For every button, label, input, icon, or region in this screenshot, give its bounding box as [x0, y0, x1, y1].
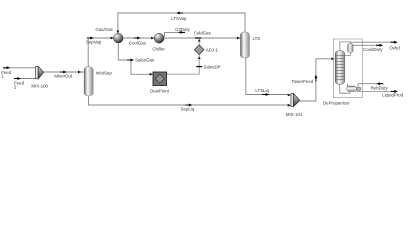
arrow on stream Feed 1 — [3, 66, 10, 69]
svg-text:LTSVap: LTSVap — [171, 16, 187, 21]
arrow on energy stream RebDuty (pointing left) — [376, 82, 383, 85]
wire ADJ-1 target connector to SalesDP — [167, 55, 200, 75]
svg-text:Chiller: Chiller — [152, 46, 165, 51]
wire column bottoms line — [340, 84, 350, 93]
nozzle arrowhead into DePropanizer — [331, 57, 334, 60]
wire stream LTSVap (top line) — [118, 13, 245, 34]
sub-flowsheet boundary DePropanizer — [334, 39, 363, 98]
wire energy stream RebDuty — [358, 84, 383, 87]
nozzle arrowhead into DewPoint — [150, 73, 153, 76]
nozzle arrowhead into Gas/Gas — [111, 37, 114, 40]
adjust operation ADJ-1 — [194, 45, 204, 55]
separator vessel InletSep — [84, 67, 93, 96]
wire reboiler vapour return — [347, 84, 349, 86]
arrow on stream TowerFeed (pointing up) — [314, 75, 317, 82]
svg-text:CoolGas: CoolGas — [129, 40, 147, 45]
svg-text:ADJ-1: ADJ-1 — [206, 47, 219, 52]
arrow on stream LTSLiq — [262, 93, 269, 96]
ADJ-1 connector arrow up to ColdGas — [198, 39, 201, 42]
wire stream CoolGas — [123, 37, 154, 39]
svg-text:MixerOut: MixerOut — [54, 73, 73, 78]
svg-text:DewPoint: DewPoint — [150, 89, 170, 94]
arrow on stream Feed 2 — [14, 77, 21, 80]
arrow on stream SepVap — [87, 37, 94, 40]
arrow on energy stream CondDuty — [376, 44, 383, 47]
svg-text:MIX-100: MIX-100 — [31, 84, 48, 89]
wire stream LiquidProd — [356, 90, 397, 92]
ADJ-1 attachment tick on ColdGas — [195, 37, 201, 38]
tick SalesDP — [196, 66, 202, 67]
reboiler nozzle — [356, 87, 360, 91]
arrow on stream Ovhd — [391, 41, 398, 44]
svg-text:SalesDP: SalesDP — [204, 64, 221, 69]
label Feed 2 — [14, 81, 25, 90]
svg-text:ColdGas: ColdGas — [194, 31, 212, 36]
svg-text:C3Duty: C3Duty — [175, 27, 190, 32]
svg-text:TowerFeed: TowerFeed — [292, 79, 314, 84]
svg-text:RebDuty: RebDuty — [371, 86, 389, 91]
nozzle arrowhead into LTS — [237, 37, 240, 40]
logical operation DewPoint — [153, 72, 167, 86]
svg-text:LTSLiq: LTSLiq — [255, 88, 269, 93]
wire stream MixerOut — [44, 71, 82, 73]
svg-text:InletSep: InletSep — [96, 71, 113, 76]
nozzle arrowhead into Chiller — [151, 37, 154, 40]
arrow on stream MixerOut — [60, 71, 67, 74]
wire stream Ovhd — [350, 41, 397, 43]
wire stream LTSLiq — [246, 58, 289, 94]
wire stream SepVap — [88, 38, 114, 67]
arrow on stream SalesGas — [127, 59, 134, 62]
svg-text:SepLiq: SepLiq — [181, 107, 195, 112]
nozzle arrowhead into MIX-101 top — [288, 94, 291, 97]
arrow on stream LiquidProd — [391, 90, 398, 93]
svg-text:DePropanizer: DePropanizer — [323, 100, 350, 105]
svg-text:CondDuty: CondDuty — [363, 47, 383, 52]
condenser drum — [348, 43, 354, 52]
svg-text:LiquidProd: LiquidProd — [382, 93, 404, 98]
heat exchanger Gas/Gas — [114, 33, 124, 43]
wire reflux line — [345, 53, 351, 56]
wire energy stream CondDuty — [353, 44, 383, 46]
wire stream ColdGas — [164, 37, 240, 39]
wire stream TowerFeed — [300, 59, 332, 101]
column tower DePropanizer — [335, 51, 345, 85]
cooler Chiller — [154, 33, 164, 43]
arrow on energy stream C3Duty (pointing left) — [178, 31, 185, 34]
svg-text:SepVap: SepVap — [86, 39, 102, 44]
svg-text:MIX-101: MIX-101 — [286, 112, 303, 117]
wire stream Feed 2 — [14, 78, 36, 80]
mixer MIX-100 — [36, 66, 44, 79]
nozzle arrowhead into MIX-101 bottom — [288, 104, 291, 107]
arrow up toward ADJ-1 — [198, 56, 201, 59]
wire energy stream C3Duty — [165, 32, 186, 36]
wire stream Feed 1 — [3, 67, 36, 69]
wire condenser overhead line — [340, 42, 351, 51]
arrow on stream SepLiq — [185, 104, 192, 107]
arrow on stream LTSVap (pointing left) — [176, 12, 183, 15]
nozzle arrowhead into Gas/Gas top — [117, 30, 120, 33]
separator vessel LTS — [240, 32, 249, 58]
reboiler drum — [347, 86, 357, 92]
svg-text:LTS: LTS — [253, 36, 261, 41]
nozzle arrowhead into InletSep — [78, 71, 81, 74]
label Feed 1 — [1, 70, 12, 79]
wire stream SepLiq — [89, 96, 289, 105]
wire stream SalesGas — [118, 43, 150, 74]
svg-text:Gas/Gas: Gas/Gas — [95, 27, 113, 32]
arrow on stream CoolGas — [134, 37, 141, 40]
svg-text:Ovhd: Ovhd — [389, 45, 400, 50]
mixer MIX-101 — [291, 94, 300, 107]
svg-text:SalesGas: SalesGas — [135, 58, 155, 63]
